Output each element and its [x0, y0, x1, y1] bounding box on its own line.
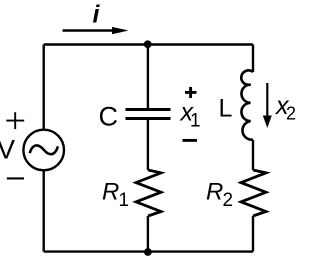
svg-text:2: 2 [223, 190, 234, 211]
svg-text:R: R [102, 179, 119, 206]
svg-text:2: 2 [286, 104, 296, 124]
svg-text:i: i [93, 1, 101, 29]
svg-text:1: 1 [119, 190, 130, 211]
svg-text:C: C [99, 101, 119, 131]
svg-text:1: 1 [190, 111, 201, 132]
svg-text:L: L [219, 94, 233, 122]
svg-text:V: V [0, 135, 15, 165]
svg-text:R: R [206, 179, 223, 206]
